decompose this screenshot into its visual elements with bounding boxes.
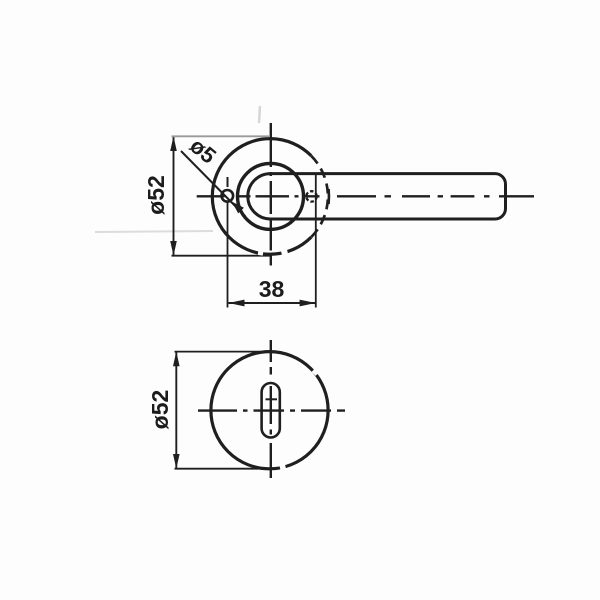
faint scan streak left: [95, 231, 213, 232]
hidden small circle on lever axis: [306, 191, 316, 201]
rose circle right edge tick on centerline: [327, 189, 330, 204]
svg-text:ø52: ø52: [143, 175, 169, 215]
rose middle circle: [238, 163, 304, 229]
tick inside keyhole: [266, 398, 278, 400]
bottom figure: vertical centerline: [270, 340, 272, 478]
svg-text:38: 38: [259, 276, 285, 302]
arrow up: [173, 352, 180, 367]
screw hole o5: [222, 190, 234, 202]
dimension 38: extension lines: [227, 203, 229, 308]
arrow right: [300, 300, 316, 307]
top figure: vertical centerline: [270, 123, 272, 266]
arrow down: [173, 454, 180, 469]
dimension o52 (bottom): dimension line: [175, 352, 177, 468]
rose outer circle, dashed right part (hidden behind lever): [311, 156, 328, 237]
lever handle outline (neck + grip stadium): [248, 174, 506, 219]
dimension o52 (top): dimension line: [173, 137, 175, 255]
arrow up: [170, 136, 177, 151]
erosion nicks on rose circle bottom: [258, 252, 288, 254]
leader arrowhead: [232, 202, 244, 214]
keyhole slot: [262, 383, 280, 438]
faint scan smudge above circle: [259, 106, 260, 123]
bottom figure: horizontal centerline: [198, 409, 345, 411]
screw hole vertical centerline: [227, 177, 229, 187]
top extension line (light): [172, 135, 270, 137]
arrow down: [170, 241, 177, 256]
dimension 38: dimension line: [228, 302, 315, 304]
svg-text:ø5: ø5: [185, 133, 221, 169]
top extension line: [175, 351, 261, 353]
bottom figure: escutcheon circle: [211, 352, 328, 469]
erosion nicks on escutcheon circle: [280, 371, 317, 468]
top figure: horizontal centerline: [197, 195, 534, 197]
svg-text:ø52: ø52: [147, 390, 173, 430]
arrow left: [229, 300, 245, 307]
rose outer circle, solid part: [212, 139, 311, 255]
bottom extension line: [172, 255, 273, 257]
leader line for o5: [181, 151, 246, 217]
bottom extension line: [175, 468, 269, 470]
